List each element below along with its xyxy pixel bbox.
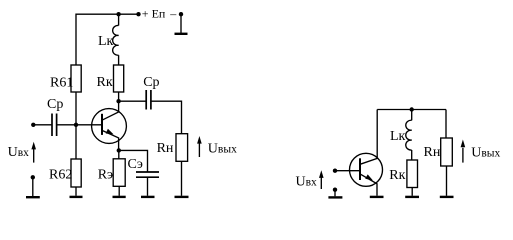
ground under Rн right [440, 196, 454, 198]
svg-text:Lк: Lк [390, 129, 406, 144]
wire rail to Rн right [445, 110, 447, 139]
node supply terminal left [136, 12, 140, 16]
svg-text:–: – [169, 7, 177, 21]
wire cap to base [57, 124, 102, 126]
capacitor Cр input [52, 114, 57, 137]
ground under Rн left [175, 196, 189, 198]
inductor Lк (left stage) [113, 14, 119, 65]
wire Rб1 to Rб2 [75, 92, 77, 159]
capacitor Cр output [146, 90, 151, 110]
ground under Cэ [141, 196, 155, 198]
ground at supply [175, 14, 188, 34]
wire emitter to Cэ [119, 150, 148, 172]
inductor Lк (right stage) [406, 110, 412, 161]
ground under Rэ [113, 196, 126, 198]
svg-text:Uвх: Uвх [8, 145, 30, 160]
node base junction [74, 123, 78, 127]
resistor R61 [71, 65, 81, 92]
svg-text:Rк: Rк [389, 168, 405, 183]
svg-text:R61: R61 [50, 75, 73, 90]
wire input to cap [33, 124, 52, 126]
resistor R62 [71, 159, 81, 187]
wire Cэ to ground [147, 177, 149, 196]
resistor Rк (right stage) [407, 160, 418, 188]
resistor Rн (left stage) [176, 134, 188, 162]
node input ground terminal right [333, 188, 337, 192]
wire collector to output cap [119, 100, 146, 102]
arrow Uвых right [461, 140, 466, 163]
arrow Uвх left [31, 142, 36, 163]
node collector [116, 99, 120, 103]
wire Rб2 to ground [75, 187, 77, 196]
ground under emitter right [370, 196, 384, 198]
wire Rк to ground right [411, 188, 413, 196]
transistor VT1 [92, 101, 127, 150]
wire input to base right [335, 170, 360, 172]
resistor Rн (right stage) [441, 138, 453, 166]
svg-text:Cр: Cр [47, 97, 63, 112]
ground under Rб2 [70, 196, 83, 198]
node emitter [117, 148, 121, 152]
svg-text:Uвых: Uвых [471, 146, 500, 161]
node input terminal left [31, 123, 35, 127]
ground under Rк right [405, 196, 419, 198]
wire Rн to ground right [446, 166, 448, 196]
svg-text:Rэ: Rэ [98, 167, 113, 182]
svg-text:Cэ: Cэ [128, 157, 143, 172]
svg-text:Uвх: Uвх [296, 175, 318, 190]
arrow Uвых left [197, 136, 202, 157]
wire left rail top (corner to Rб1) [76, 14, 139, 65]
capacitor Cэ [136, 172, 159, 177]
svg-text:R62: R62 [49, 168, 72, 183]
svg-text:Cр: Cр [143, 75, 159, 90]
resistor Rэ [113, 159, 125, 187]
svg-text:+ Еп: + Еп [142, 7, 166, 21]
resistor Rк (left stage) [114, 65, 124, 92]
wire Rн to ground [181, 161, 183, 196]
svg-text:Lк: Lк [98, 34, 114, 49]
wire Rэ to ground [118, 186, 120, 196]
svg-text:Rн: Rн [157, 141, 174, 156]
node rail junction right [410, 107, 414, 111]
arrow Uвх right [319, 170, 324, 189]
wire emitter to Rэ [118, 150, 120, 158]
node collector-rail junction [116, 12, 120, 16]
ground at input right [328, 190, 342, 198]
wire Rк to collector node [118, 92, 120, 101]
node input terminal right [333, 169, 337, 173]
ground at input left [26, 177, 40, 197]
wire top rail right [377, 109, 446, 111]
wire output cap to Rн [151, 101, 182, 134]
node supply terminal right [179, 12, 183, 16]
svg-text:Uвых: Uвых [208, 142, 237, 157]
svg-text:Rк: Rк [97, 75, 113, 90]
transistor VT2 [350, 110, 383, 196]
node input ground terminal [31, 175, 35, 179]
svg-text:Rн: Rн [424, 145, 441, 160]
